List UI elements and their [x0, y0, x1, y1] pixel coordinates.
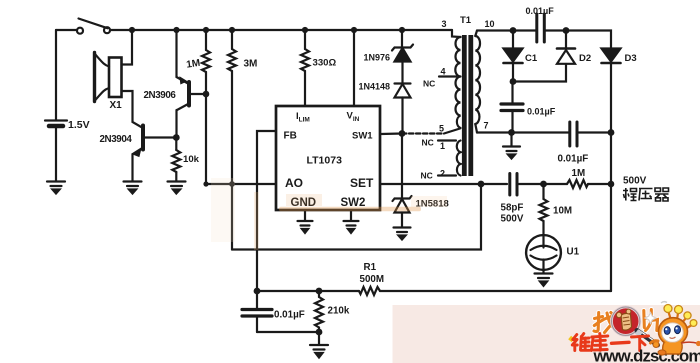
svg-text:3M: 3M — [244, 59, 258, 70]
resistor 1M — [202, 30, 210, 94]
svg-text:10M: 10M — [553, 206, 572, 217]
wire D1 to D2 anode — [513, 64, 566, 82]
svg-text:1: 1 — [440, 141, 445, 151]
WATERMARK — [393, 302, 700, 363]
svg-text:R1: R1 — [364, 262, 377, 273]
capacitor C5 58pF — [510, 174, 567, 196]
node 1M base junction — [203, 91, 210, 98]
svg-text:58pF: 58pF — [501, 203, 524, 214]
transformer T1 secondary winding — [475, 36, 480, 124]
node AO corner — [203, 181, 208, 186]
svg-text:0.01µF: 0.01µF — [527, 107, 556, 117]
watermark sparkle — [645, 313, 656, 324]
node SET 3M — [478, 181, 485, 188]
svg-text:0.01µF: 0.01µF — [526, 6, 555, 16]
op-amp U2 LT1073 box — [276, 106, 380, 210]
svg-text:LT1073: LT1073 — [307, 155, 343, 167]
stain IC bottom — [211, 178, 447, 250]
svg-text:0.01µF: 0.01µF — [558, 154, 589, 165]
switch S1 — [77, 19, 110, 34]
wire right rail — [610, 133, 612, 292]
diode D5 1N5818 — [393, 134, 412, 227]
diode D2 — [557, 31, 575, 64]
node Q2 base junction — [173, 134, 180, 141]
label wenyaqi CJK 500V regulator — [623, 188, 669, 201]
resistor 3M — [228, 30, 236, 250]
speaker X1 — [95, 53, 122, 102]
node D1 top — [510, 27, 517, 34]
svg-text:2N3906: 2N3906 — [144, 90, 177, 101]
svg-text:10k: 10k — [183, 154, 200, 165]
resistor 210k — [315, 291, 323, 344]
watermark magnifier circle — [612, 307, 640, 335]
svg-text:1M: 1M — [186, 58, 201, 71]
node 3M AO crossing — [229, 181, 235, 187]
svg-text:2: 2 — [440, 169, 445, 179]
svg-text:500V: 500V — [501, 214, 524, 225]
transformer T1 pin1 lead NC — [438, 139, 456, 141]
wire SET — [380, 183, 507, 185]
watermark CJK weiku yixia — [572, 334, 648, 351]
transistor Q2 2N3904 — [133, 126, 177, 181]
wire GND pin — [304, 210, 306, 220]
resistor 10k — [172, 138, 180, 181]
svg-text:U1: U1 — [567, 247, 580, 258]
svg-text:10: 10 — [485, 19, 495, 29]
node D1 D2 — [510, 78, 517, 85]
node 10M top — [540, 181, 547, 188]
svg-text:D3: D3 — [625, 53, 637, 64]
transformer T1 core — [462, 35, 473, 176]
svg-text:500V: 500V — [623, 176, 647, 187]
transformer T1 primary winding — [455, 37, 460, 128]
svg-text:0.01µF: 0.01µF — [274, 310, 305, 321]
capacitor C3 0.01uF node B — [501, 82, 523, 133]
node rail junctions — [129, 27, 405, 33]
capacitor C2 0.01uF top — [537, 14, 545, 42]
svg-text:AO: AO — [285, 176, 303, 190]
ground SW2 pin — [344, 221, 359, 233]
wire rail left — [56, 29, 77, 31]
ground battery — [47, 182, 65, 194]
wire top secondary — [477, 29, 536, 31]
transistor Q1 2N3906 — [177, 30, 207, 138]
wire 1M junction down to AO — [205, 94, 207, 184]
svg-text:1.5V: 1.5V — [68, 119, 90, 131]
resistor R2 1M output — [567, 180, 611, 188]
ground 1N5818 — [394, 228, 411, 240]
watermark chip graphic inside circle — [616, 309, 631, 330]
wire top after cap — [545, 31, 612, 49]
wire X1 bottom to Q2 collector — [122, 91, 143, 128]
diode D1 — [504, 31, 523, 82]
diode D6 1N4148 — [395, 84, 411, 134]
wire AO — [206, 183, 276, 185]
svg-text:NC: NC — [422, 138, 434, 148]
transformer T1 pin3 lead — [452, 30, 461, 37]
svg-text:SET: SET — [350, 176, 374, 190]
node 210k bottom — [316, 329, 323, 336]
svg-text:3: 3 — [442, 19, 447, 29]
transformer T1 pin4 tap NC — [439, 75, 456, 77]
wire SW2 pin — [350, 210, 352, 220]
ground 10k — [168, 182, 186, 194]
svg-text:X1: X1 — [110, 100, 123, 111]
battery BT 1.5V — [45, 30, 67, 181]
ground pin7 — [503, 133, 520, 159]
wire VIN — [353, 30, 355, 106]
svg-text:www.dzsc.com: www.dzsc.com — [593, 347, 700, 363]
resistor R1 500M — [257, 287, 380, 295]
svg-text:500M: 500M — [360, 274, 385, 285]
transformer T1 pin2 lead NC — [438, 174, 456, 176]
watermark mascot — [651, 302, 700, 355]
watermark yellow spark — [568, 336, 574, 342]
svg-text:5: 5 — [439, 124, 444, 134]
diode D3 — [602, 49, 621, 133]
svg-text:7: 7 — [484, 121, 489, 131]
node rail cap — [608, 129, 615, 136]
node SW1 junction — [399, 130, 406, 137]
svg-text:1N976: 1N976 — [364, 53, 391, 63]
node FB bottom — [254, 288, 261, 295]
resistor 330ohm — [301, 30, 309, 106]
wire 3M bottom to SET node — [232, 184, 481, 250]
tube U1 — [526, 235, 561, 272]
svg-text:NC: NC — [423, 79, 435, 89]
wire FB — [257, 131, 276, 291]
wire bottom right — [380, 290, 611, 292]
ground U1 — [535, 274, 553, 286]
transformer T1 pin7 lead — [475, 124, 477, 133]
watermark magnifier handle — [637, 330, 660, 348]
svg-text:2N3904: 2N3904 — [100, 134, 133, 145]
wire SW1 — [380, 132, 402, 135]
ground 210k — [310, 345, 328, 358]
svg-text:210k: 210k — [328, 306, 350, 317]
svg-text:FB: FB — [284, 131, 297, 142]
svg-text:C1: C1 — [525, 53, 538, 64]
svg-text:NC: NC — [421, 171, 433, 181]
svg-text:SW1: SW1 — [352, 131, 373, 142]
svg-text:330Ω: 330Ω — [313, 58, 337, 69]
node D2 top — [563, 27, 570, 34]
wire top rail — [110, 29, 452, 31]
svg-text:T1: T1 — [460, 15, 472, 26]
capacitor C6 0.01uF bottom — [242, 291, 319, 332]
svg-text:1N4148: 1N4148 — [359, 82, 391, 92]
node pin7 — [508, 129, 515, 136]
watermark char zhao — [594, 313, 614, 333]
svg-text:D2: D2 — [579, 53, 591, 64]
svg-text:4: 4 — [441, 67, 446, 77]
capacitor C4 0.01uF series — [570, 122, 611, 146]
node 210k top — [316, 288, 323, 295]
diode D4 zener 1N976 — [392, 30, 413, 83]
transformer T1 aux winding — [457, 141, 461, 176]
watermark pink background — [393, 305, 700, 363]
wire SW1 to T1 pin5 — [402, 132, 444, 134]
ground GND pin — [298, 221, 313, 233]
watermark char pian — [644, 310, 658, 331]
transformer T1 pin10 lead — [475, 31, 477, 37]
svg-text:1M: 1M — [572, 168, 586, 179]
ground Q2 emitter — [124, 182, 142, 194]
wire X1 top to rail — [122, 30, 133, 65]
wire pin7 — [477, 131, 569, 133]
node output 500V — [608, 181, 615, 188]
resistor 10M — [540, 184, 548, 235]
